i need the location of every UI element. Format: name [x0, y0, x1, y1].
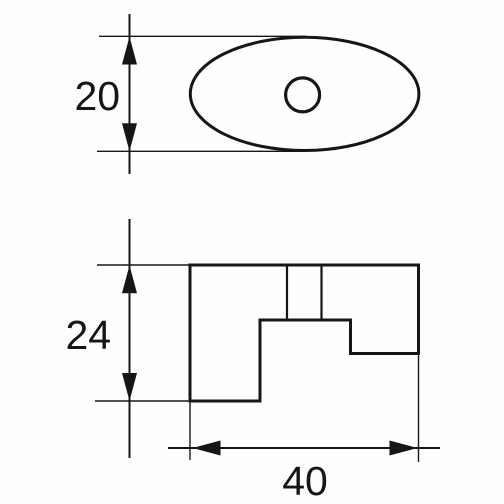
extension line top of 24 — [97, 264, 190, 266]
text 40 — [282, 458, 328, 504]
extension line top of 20 — [99, 35, 306, 37]
top view ellipse — [190, 37, 419, 150]
arrowhead up 24 — [122, 265, 137, 293]
extension line left of 40 — [189, 401, 191, 460]
svg-text:20: 20 — [74, 73, 120, 119]
hole edge right in front view — [320, 265, 322, 320]
arrowhead left 40 — [193, 441, 221, 456]
arrowhead down 24 — [122, 373, 137, 401]
arrowhead down 20 — [122, 123, 137, 151]
text 24 — [65, 312, 111, 358]
dimension line 20 — [129, 14, 131, 174]
svg-text:24: 24 — [65, 312, 111, 358]
hole edge left in front view — [286, 265, 288, 320]
extension line right of 40 — [418, 353, 420, 462]
dimension line 24 — [129, 219, 131, 458]
svg-text:40: 40 — [282, 458, 328, 504]
text 20 — [74, 73, 120, 119]
dimension line 40 — [168, 447, 440, 449]
arrowhead up 20 — [122, 37, 137, 65]
extension line bottom of 20 — [97, 150, 306, 152]
front view outline — [190, 265, 419, 401]
hole circle — [286, 78, 320, 112]
extension line bottom of 24 — [95, 400, 190, 402]
arrowhead right 40 — [390, 441, 418, 456]
